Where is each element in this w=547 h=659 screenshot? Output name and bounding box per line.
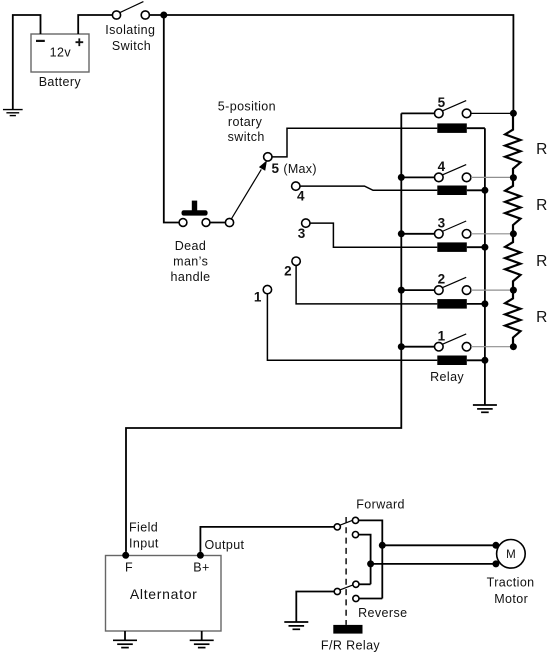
relay coil 2 xyxy=(437,299,485,309)
node F terminal xyxy=(122,552,129,559)
node bus relay4 xyxy=(398,174,405,181)
relay 4 switch xyxy=(401,159,510,182)
svg-text:12v: 12v xyxy=(50,46,72,60)
svg-text:Motor: Motor xyxy=(494,592,528,606)
resistor R1 xyxy=(505,113,547,177)
svg-text:Dead: Dead xyxy=(175,239,206,253)
svg-text:Battery: Battery xyxy=(39,75,82,89)
node resistor bottom xyxy=(510,343,517,350)
svg-text:R: R xyxy=(536,309,547,326)
ground (battery) xyxy=(3,110,23,116)
ground (alternator right) xyxy=(190,640,214,647)
wire forward upper throw xyxy=(359,520,383,598)
wire reverse upper throw xyxy=(359,583,371,585)
svg-text:handle: handle xyxy=(171,270,211,284)
svg-text:3: 3 xyxy=(298,226,306,241)
node motor wire bottom left xyxy=(367,560,374,567)
svg-text:Reverse: Reverse xyxy=(358,606,407,620)
wire left bus to alternator field xyxy=(126,113,401,552)
node B+ terminal xyxy=(197,552,204,559)
node resistor 1-2 xyxy=(510,174,517,181)
wire forward lower throw xyxy=(359,535,371,585)
rotary contact 3 xyxy=(298,219,310,241)
svg-text:Output: Output xyxy=(205,538,245,552)
svg-text:2: 2 xyxy=(438,272,446,287)
node coil bus 3 xyxy=(481,244,488,251)
node resistor 2-3 xyxy=(510,230,517,237)
dashed mechanical link xyxy=(345,517,347,625)
resistor R2 xyxy=(505,178,547,234)
svg-text:Forward: Forward xyxy=(356,497,405,511)
node rail junction xyxy=(160,12,167,19)
svg-text:R: R xyxy=(536,141,547,158)
svg-text:4: 4 xyxy=(438,159,446,174)
wire contact 2 to relay coil 2 xyxy=(296,265,437,304)
wire contact 3 to relay coil 3 xyxy=(310,223,437,247)
svg-text:rotary: rotary xyxy=(228,115,263,129)
wire right coil bus to ground xyxy=(484,128,486,405)
relay coil 5 xyxy=(437,123,485,132)
node bus relay1 xyxy=(398,343,405,350)
wire reverse lower throw xyxy=(359,598,382,600)
svg-text:2: 2 xyxy=(284,264,292,279)
svg-text:5 (Max): 5 (Max) xyxy=(272,161,317,176)
node motor wire top left xyxy=(379,542,386,549)
wire dead man's handle to wiper pivot xyxy=(210,222,226,224)
svg-text:4: 4 xyxy=(297,189,305,204)
node coil bus 1 xyxy=(481,357,488,364)
svg-text:5: 5 xyxy=(438,95,446,110)
node bus relay2 xyxy=(398,287,405,294)
wire alternator ground right xyxy=(201,631,203,640)
resistor R3 xyxy=(505,234,547,290)
dead man's handle pushbutton xyxy=(171,201,211,284)
rotary switch wiper arm with arrow xyxy=(225,160,267,226)
wire battery plus to isolating switch xyxy=(78,15,112,34)
wire B+ output to forward switch xyxy=(200,527,334,552)
node resistor top xyxy=(510,110,517,117)
node bus relay3 xyxy=(398,230,405,237)
rotary contact 2 xyxy=(284,257,300,279)
isolating switch S1 xyxy=(105,2,155,53)
svg-text:B+: B+ xyxy=(193,561,209,575)
wire battery minus to ground xyxy=(13,15,41,110)
wire contact 4 to relay coil 4 xyxy=(300,186,437,190)
node motor terminal bottom xyxy=(492,560,499,567)
svg-text:M: M xyxy=(506,549,516,561)
rotary contact 5 xyxy=(264,153,317,176)
relay coil 4 xyxy=(437,186,485,196)
svg-text:Traction: Traction xyxy=(487,576,535,590)
label field input xyxy=(129,521,159,551)
svg-text:Alternator: Alternator xyxy=(130,586,198,602)
wire rail junction down to dead man's handle xyxy=(164,15,180,223)
wire contact 1 to relay coil 1 xyxy=(267,294,437,361)
svg-text:F/R Relay: F/R Relay xyxy=(321,638,381,652)
node coil bus 2 xyxy=(481,300,488,307)
ground (reverse pole) xyxy=(284,622,308,629)
svg-text:F: F xyxy=(125,561,133,575)
svg-text:R: R xyxy=(536,197,547,214)
svg-text:1: 1 xyxy=(438,328,446,343)
node coil bus 4 xyxy=(481,187,488,194)
svg-text:switch: switch xyxy=(228,130,265,144)
reverse switch xyxy=(334,581,407,620)
forward switch xyxy=(334,497,405,537)
relay coil 3 xyxy=(437,242,485,252)
relay 2 switch xyxy=(401,272,510,295)
svg-text:Switch: Switch xyxy=(112,39,151,53)
ground (alternator left) xyxy=(113,640,137,647)
ground (relay bus) xyxy=(473,405,497,412)
svg-text:Isolating: Isolating xyxy=(105,23,155,37)
wire reverse pole to ground xyxy=(296,592,334,622)
relay coil 1 xyxy=(430,356,485,385)
rotary contact 1 xyxy=(254,285,272,304)
relay 1 switch xyxy=(401,328,510,351)
svg-text:5-position: 5-position xyxy=(218,100,276,114)
battery BT1 xyxy=(31,34,89,89)
relay 5 switch xyxy=(401,95,510,118)
F/R relay coil xyxy=(321,625,381,652)
rotary contact 4 xyxy=(292,182,305,204)
svg-text:3: 3 xyxy=(438,215,446,230)
node motor terminal top xyxy=(492,542,499,549)
svg-text:man’s: man’s xyxy=(173,254,208,268)
traction motor M xyxy=(487,540,535,606)
svg-text:1: 1 xyxy=(254,290,262,305)
wire contact 5 to relay coil 5 xyxy=(272,128,437,157)
node resistor 3-4 xyxy=(510,287,517,294)
wire top rail xyxy=(149,15,513,113)
svg-text:Field: Field xyxy=(129,521,158,535)
label 5-position rotary switch xyxy=(218,100,276,144)
wire motor bottom xyxy=(371,563,496,565)
alternator G1 xyxy=(106,556,222,632)
resistor R4 xyxy=(505,290,547,347)
svg-text:Relay: Relay xyxy=(430,370,464,384)
wire motor top xyxy=(382,544,496,546)
relay 3 switch xyxy=(401,215,510,238)
wire alternator ground left xyxy=(124,631,126,640)
svg-text:Input: Input xyxy=(129,537,159,551)
svg-text:R: R xyxy=(536,253,547,270)
